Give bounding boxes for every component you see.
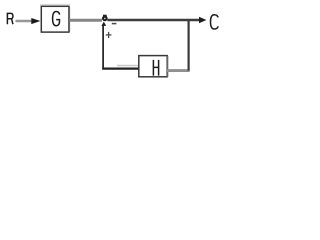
wire summing node to C [107, 19, 200, 21]
summing junction top cap [103, 15, 107, 17]
block G1 box [41, 6, 69, 32]
plus sign label [106, 34, 112, 36]
block H box [139, 56, 167, 77]
block G label [53, 12, 60, 26]
wire feedback vertical left [102, 25, 104, 70]
node R (input label) [7, 13, 12, 25]
wire H to takeoff vertical (bottom-right) [167, 69, 190, 72]
wire R to G [16, 20, 35, 22]
wire feedback bottom-left (H to node) [102, 67, 139, 69]
block H label [153, 60, 158, 76]
arrowhead into G [31, 18, 40, 24]
node C (output label) [211, 15, 219, 29]
block H shadow edge [167, 56, 169, 77]
wire takeoff vertical right [188, 20, 190, 71]
wire G to summing node [70, 19, 103, 22]
scan halo above G box [40, 4, 70, 6]
arrowhead feedback into summing node [101, 22, 106, 26]
block G1 shadow edge [68, 7, 70, 32]
summing junction circle [103, 17, 107, 21]
minus sign label [112, 23, 117, 25]
arrowhead into C [199, 17, 206, 23]
scan halo above feedback wire [117, 65, 138, 67]
